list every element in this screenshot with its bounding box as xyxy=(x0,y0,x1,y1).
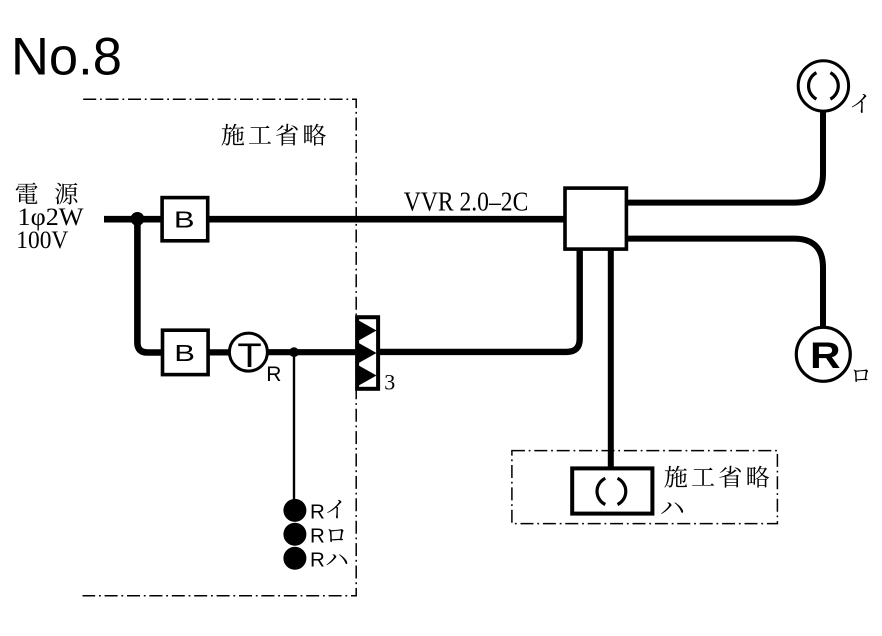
svg-text:R: R xyxy=(810,335,841,376)
label Rイ xyxy=(310,500,341,523)
svg-text:T: T xyxy=(237,336,261,374)
wire: source to junction box (VVR 2.0-2C run) xyxy=(104,216,565,223)
ceiling light ハ (angular hook ceiling box) xyxy=(572,468,652,513)
label 電源 1φ2W 100V xyxy=(16,183,84,255)
wire: junction box to receptacle ロ xyxy=(627,239,823,328)
label 施工省略 (top) xyxy=(221,124,325,146)
svg-text:R: R xyxy=(266,363,281,386)
label イ xyxy=(852,94,867,113)
wire: timer TR to relay block xyxy=(269,349,358,355)
svg-text:3: 3 xyxy=(384,369,395,394)
relay terminal Rハ (dot) xyxy=(283,547,306,570)
relay terminal Rイ (dot) xyxy=(283,499,306,522)
wire: control line from node B to relay terminals xyxy=(293,352,295,506)
lamp receptacle ロ (circle R) xyxy=(796,327,850,381)
remote-control relays (3) symbol xyxy=(357,317,379,389)
boundary 施工省略 area (left dash-dot box) xyxy=(83,99,357,595)
lamp receptacle イ (ceiling rosette, round) xyxy=(798,61,848,111)
wire: junction box to lampholder イ xyxy=(627,112,823,203)
wire: relay block to junction box bottom xyxy=(379,249,580,352)
label ロ xyxy=(854,369,868,382)
label 施工省略 (bottom) xyxy=(664,466,769,488)
wire: node A down to breaker B2 xyxy=(137,219,163,353)
svg-text:B: B xyxy=(174,206,195,232)
node B (timer output junction dot) xyxy=(289,347,299,357)
svg-text:No.8: No.8 xyxy=(11,28,122,87)
svg-text:100V: 100V xyxy=(16,227,68,254)
relay terminal Rロ (dot) xyxy=(283,523,306,546)
boundary 施工省略 area (bottom dash-dot box) xyxy=(512,451,778,524)
label Rハ xyxy=(310,548,347,571)
breaker B2 xyxy=(163,330,209,374)
svg-text:R: R xyxy=(310,524,325,547)
svg-text:B: B xyxy=(174,340,195,366)
timer TR (circle T with subscript R) xyxy=(229,333,281,386)
junction box xyxy=(565,188,626,249)
wire: breaker B2 to timer TR xyxy=(210,349,231,355)
svg-text:R: R xyxy=(310,548,325,571)
wire: junction box to ceiling light ハ xyxy=(608,249,614,470)
label ハ (bottom box) xyxy=(661,502,683,514)
node A (source junction dot) xyxy=(131,212,145,226)
label Rロ xyxy=(310,524,344,547)
svg-text:VVR 2.0–2C: VVR 2.0–2C xyxy=(404,187,529,217)
svg-text:R: R xyxy=(310,500,325,523)
breaker B1 xyxy=(162,198,208,241)
